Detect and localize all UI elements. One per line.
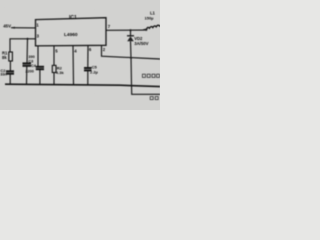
- inductor L1: [143, 25, 161, 30]
- svg-text:45V: 45V: [3, 24, 11, 29]
- resistor R2: [52, 65, 56, 72]
- svg-text:L4960: L4960: [64, 32, 78, 38]
- arrow input: [11, 27, 15, 29]
- wire C4 stub from box: [37, 46, 39, 67]
- text marks near output: [142, 74, 159, 77]
- wire junction down to C3: [26, 39, 29, 64]
- wire pin 5 down: [53, 46, 55, 66]
- wire pin 2 feedback: [102, 45, 161, 59]
- wire C4 to ground: [39, 69, 41, 84]
- svg-text:8k: 8k: [2, 55, 7, 60]
- capacitor C5: [84, 67, 92, 69]
- text marks bottom corner: [150, 97, 158, 100]
- node junction diode/feedback: [130, 57, 132, 59]
- capacitor C3: [23, 62, 32, 64]
- wire R2 to ground: [53, 73, 55, 85]
- wire C2 to ground rail: [9, 74, 11, 85]
- wire below rail output return: [132, 85, 161, 95]
- wire pin 6 down: [87, 46, 89, 68]
- svg-text:C3: C3: [28, 59, 33, 63]
- diode VD2: [130, 30, 132, 36]
- svg-text:33n: 33n: [0, 72, 7, 77]
- wire pin 3 left: [10, 39, 36, 52]
- arrow on inductor wire: [143, 28, 148, 31]
- wire diode to ground: [131, 41, 132, 84]
- resistor R1: [9, 52, 13, 61]
- svg-text:2200: 2200: [25, 69, 33, 73]
- wire pin 4 to ground: [72, 46, 75, 85]
- svg-text:IC1: IC1: [69, 15, 77, 21]
- wire C5 to ground: [87, 70, 89, 84]
- paper background: [0, 0, 160, 110]
- wire 45V input to pin 1: [11, 27, 36, 29]
- capacitor C2: [6, 70, 14, 72]
- svg-text:150µ: 150µ: [145, 15, 155, 20]
- svg-text:2.2µ: 2.2µ: [90, 70, 99, 75]
- capacitor C4: [36, 66, 44, 68]
- node junction on pin3 wire: [26, 38, 28, 40]
- svg-text:4.3k: 4.3k: [56, 70, 65, 75]
- wire R1 to C2: [9, 61, 11, 71]
- ground rail: [5, 84, 160, 86]
- svg-text:3A/50V: 3A/50V: [134, 41, 148, 46]
- op-amp U1 box IC1 L4960: [36, 18, 107, 46]
- wire pin 7 output: [106, 29, 143, 31]
- wire C3 to ground: [26, 66, 28, 85]
- node junction at diode: [129, 29, 131, 31]
- svg-text:VD2: VD2: [134, 36, 143, 41]
